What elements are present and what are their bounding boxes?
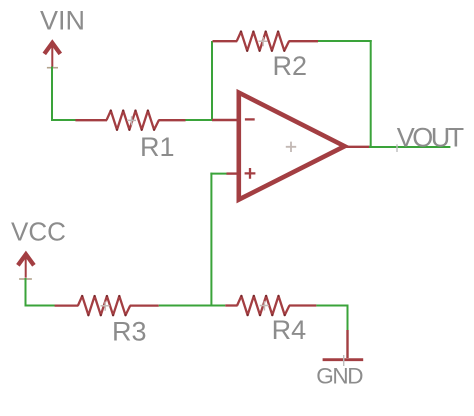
origin cross R1 <box>127 116 136 125</box>
node B vertical wire to opamp plus <box>210 173 212 307</box>
wire opamp plus stub green <box>210 173 227 175</box>
power symbol VIN arrow <box>44 43 60 67</box>
ground GND <box>323 330 364 360</box>
origin cross R3 <box>101 302 110 311</box>
origin cross R4 <box>260 301 269 310</box>
pin stub opamp plus <box>227 172 241 174</box>
resistor R3 <box>55 296 159 315</box>
pin stub opamp output <box>343 146 370 148</box>
wire R2 to feedback right <box>318 40 372 42</box>
wire output to VOUT <box>369 146 450 148</box>
pin tick GND <box>343 355 345 366</box>
op-amp U1 <box>239 93 345 200</box>
svg-text:VOUT: VOUT <box>397 123 464 153</box>
svg-text:R4: R4 <box>272 315 307 345</box>
svg-text:R3: R3 <box>112 317 147 347</box>
svg-text:R2: R2 <box>273 51 308 81</box>
node A feedback left vertical wire <box>211 41 213 120</box>
wire VCC to R3 <box>25 305 56 307</box>
wire VCC vertical drop <box>25 278 27 307</box>
wire R4 to GND corner <box>316 305 348 307</box>
svg-text:R1: R1 <box>140 132 175 162</box>
wire opamp minus stub <box>212 119 240 121</box>
vertex dots R1 <box>110 110 155 131</box>
resistor R4 <box>225 296 316 315</box>
wire R3 to node B <box>159 305 226 307</box>
wire feedback right vertical <box>370 40 372 147</box>
resistor R2 <box>213 32 319 51</box>
pin tick VOUT <box>396 144 398 152</box>
vertex dots R4 <box>240 295 285 316</box>
svg-text:VIN: VIN <box>40 6 85 36</box>
power symbol VCC arrow <box>18 254 34 277</box>
vertex dots R3 <box>81 295 126 316</box>
wire VIN to R1 <box>51 119 76 121</box>
svg-text:VCC: VCC <box>11 217 66 247</box>
wire VIN vertical drop <box>51 67 53 121</box>
pin tick VIN <box>47 67 58 69</box>
svg-text:GND: GND <box>316 364 363 389</box>
wire GND vertical green <box>347 305 349 331</box>
resistor R1 <box>75 111 185 130</box>
vertex dots R2 <box>240 31 285 52</box>
wire R1 to node A <box>185 119 213 121</box>
origin cross R2 <box>259 37 268 46</box>
pin tick VCC <box>19 278 32 280</box>
